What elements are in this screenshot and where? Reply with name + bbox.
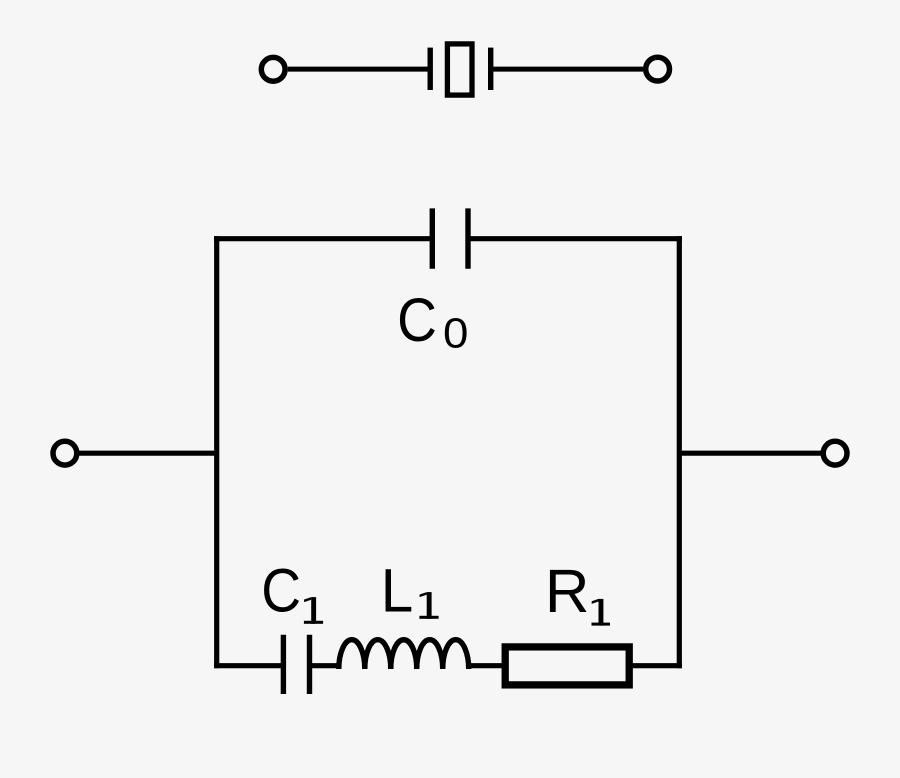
svg-text:C: C xyxy=(397,286,437,354)
svg-text:L: L xyxy=(381,557,414,625)
svg-text:R: R xyxy=(545,557,590,625)
svg-text:0: 0 xyxy=(443,309,468,357)
svg-text:C: C xyxy=(261,557,301,625)
